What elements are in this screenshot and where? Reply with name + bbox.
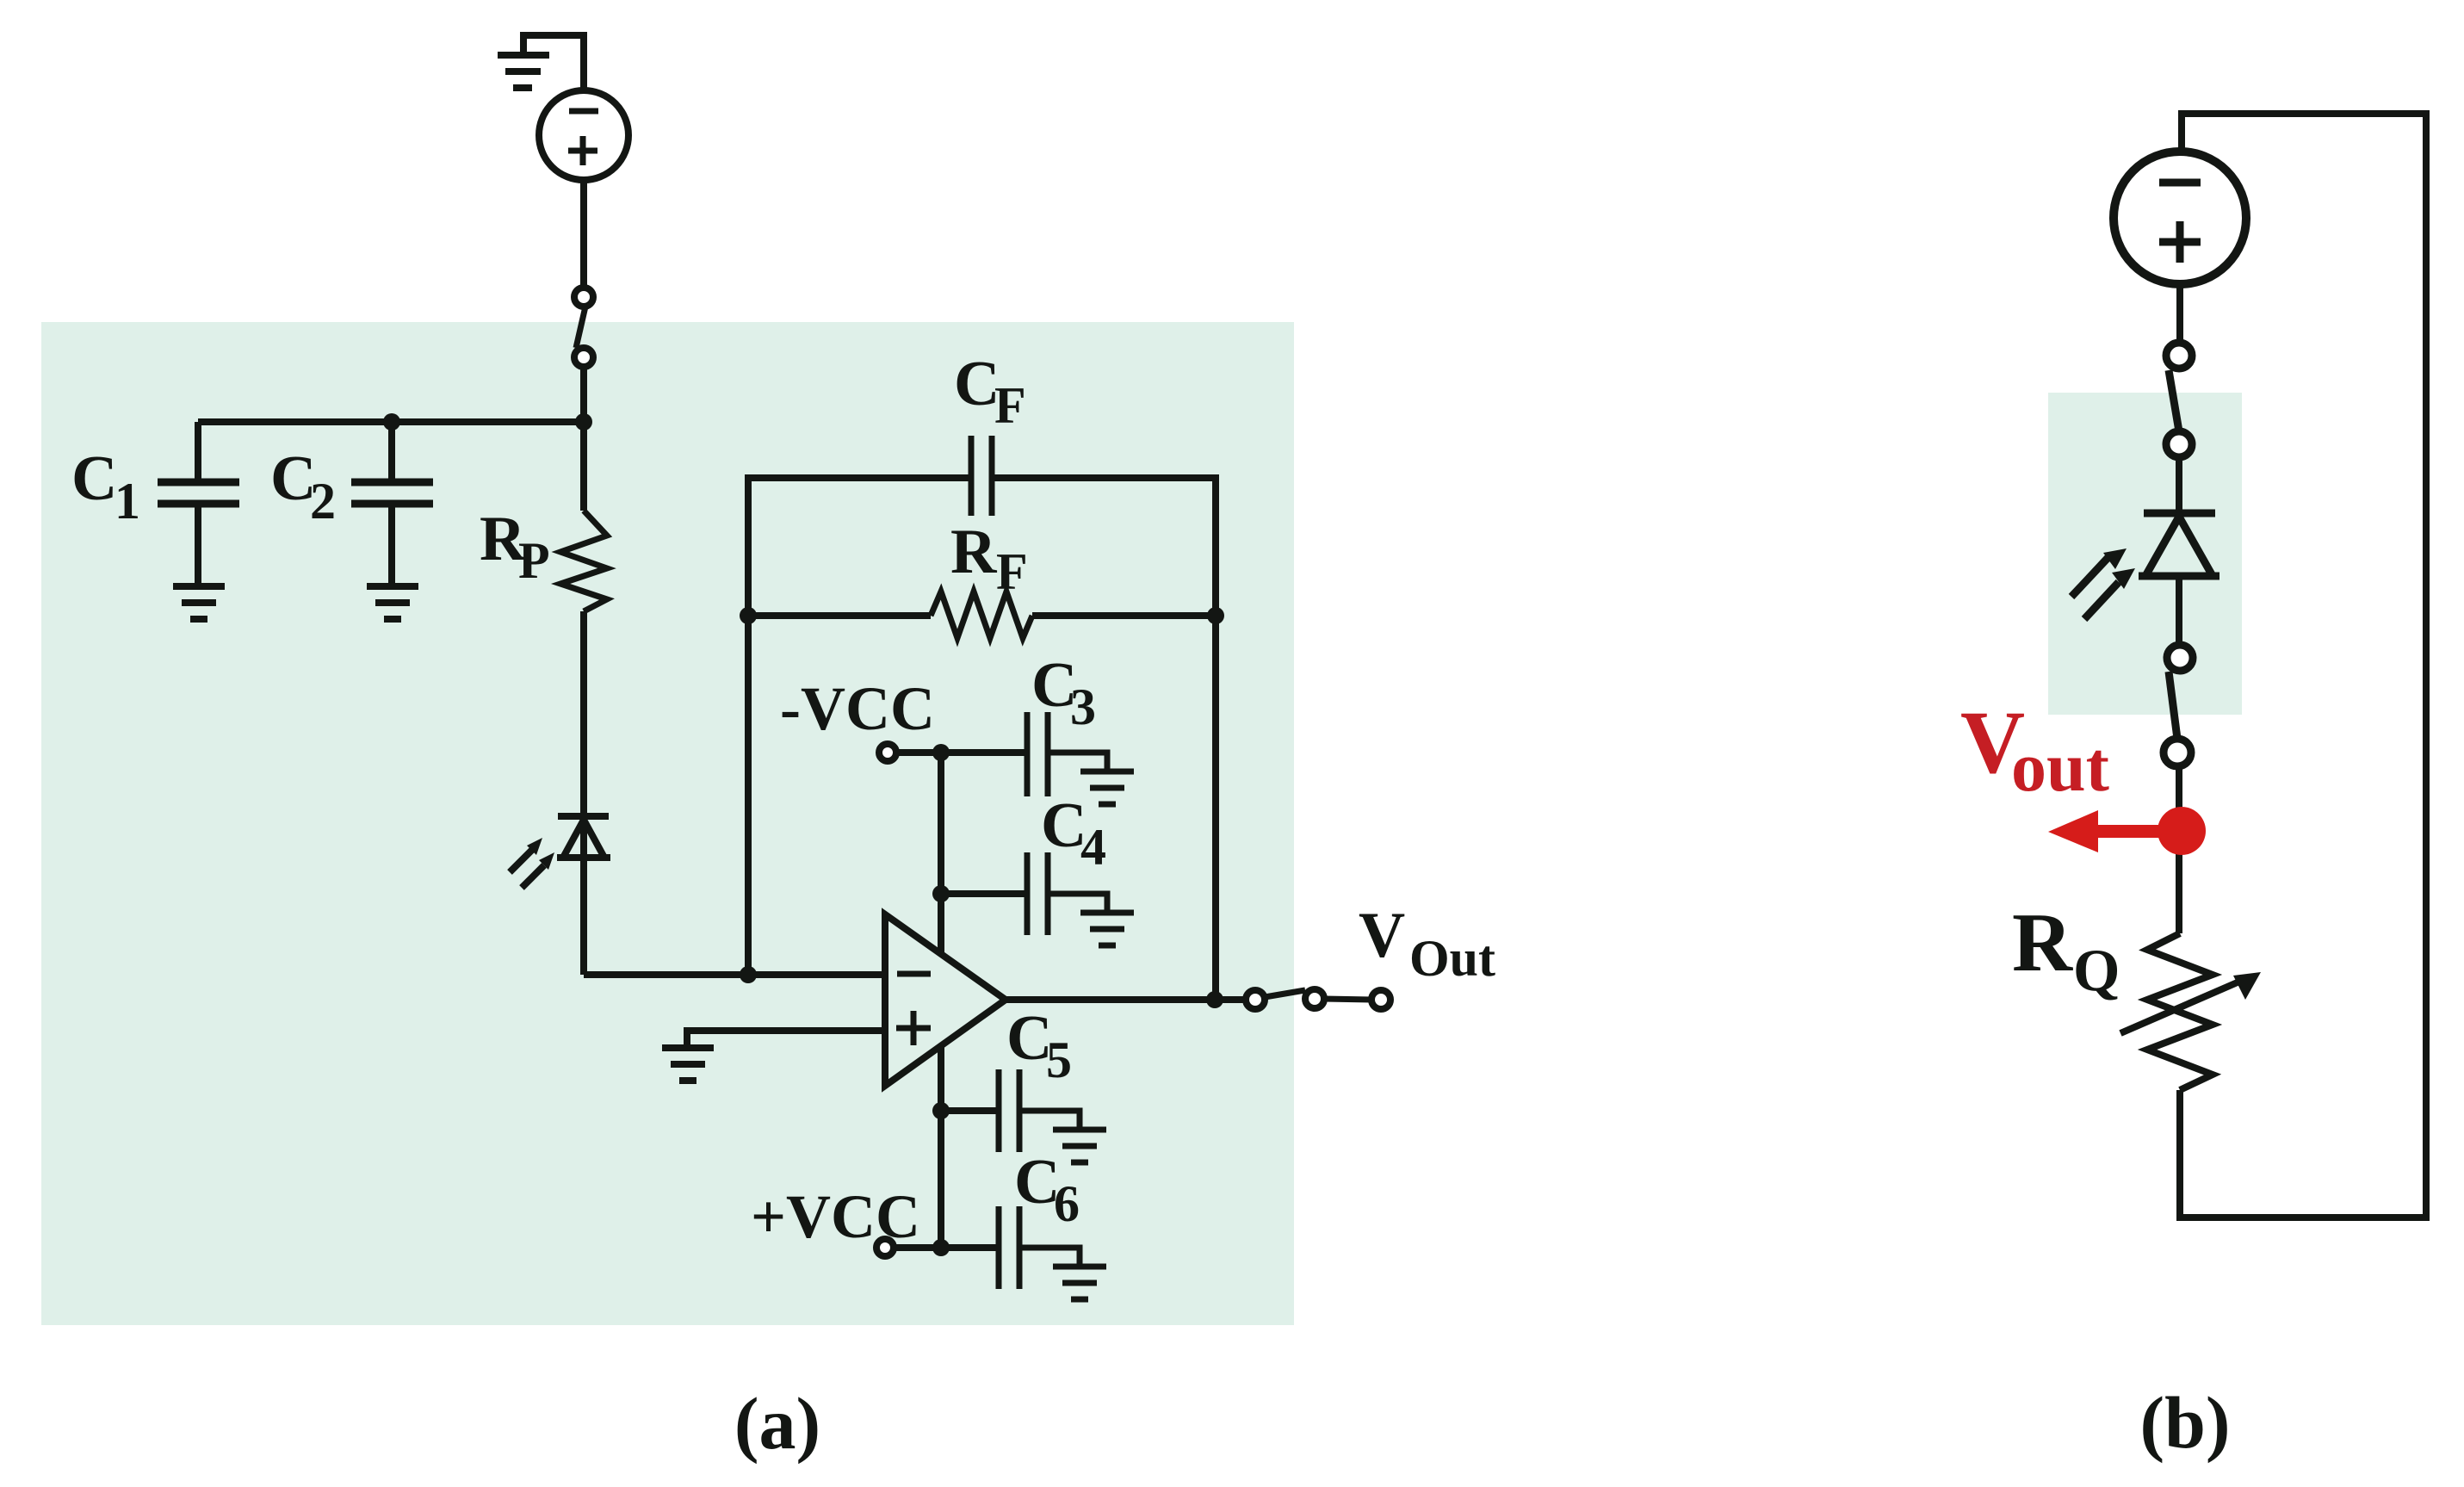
svg-text:Out: Out — [1409, 930, 1495, 987]
svg-text:V: V — [1359, 900, 1405, 971]
svg-text:(a): (a) — [734, 1382, 820, 1465]
svg-text:5: 5 — [1046, 1032, 1072, 1088]
svg-text:P: P — [518, 532, 550, 589]
svg-text:2: 2 — [310, 473, 336, 530]
svg-text:out: out — [2011, 728, 2109, 806]
svg-text:6: 6 — [1054, 1175, 1080, 1232]
svg-text:4: 4 — [1080, 819, 1106, 876]
svg-text:(b): (b) — [2139, 1381, 2230, 1464]
svg-text:C: C — [71, 443, 117, 514]
svg-text:1: 1 — [115, 473, 140, 530]
svg-text:Q: Q — [2073, 938, 2120, 1004]
svg-text:C: C — [954, 349, 1000, 419]
svg-text:R: R — [2012, 896, 2073, 988]
svg-text:F: F — [994, 377, 1026, 434]
svg-text:F: F — [996, 543, 1028, 600]
svg-text:3: 3 — [1070, 678, 1096, 735]
svg-text:-VCC: -VCC — [780, 674, 935, 743]
svg-text:R: R — [950, 517, 998, 587]
svg-text:+VCC: +VCC — [751, 1182, 920, 1251]
